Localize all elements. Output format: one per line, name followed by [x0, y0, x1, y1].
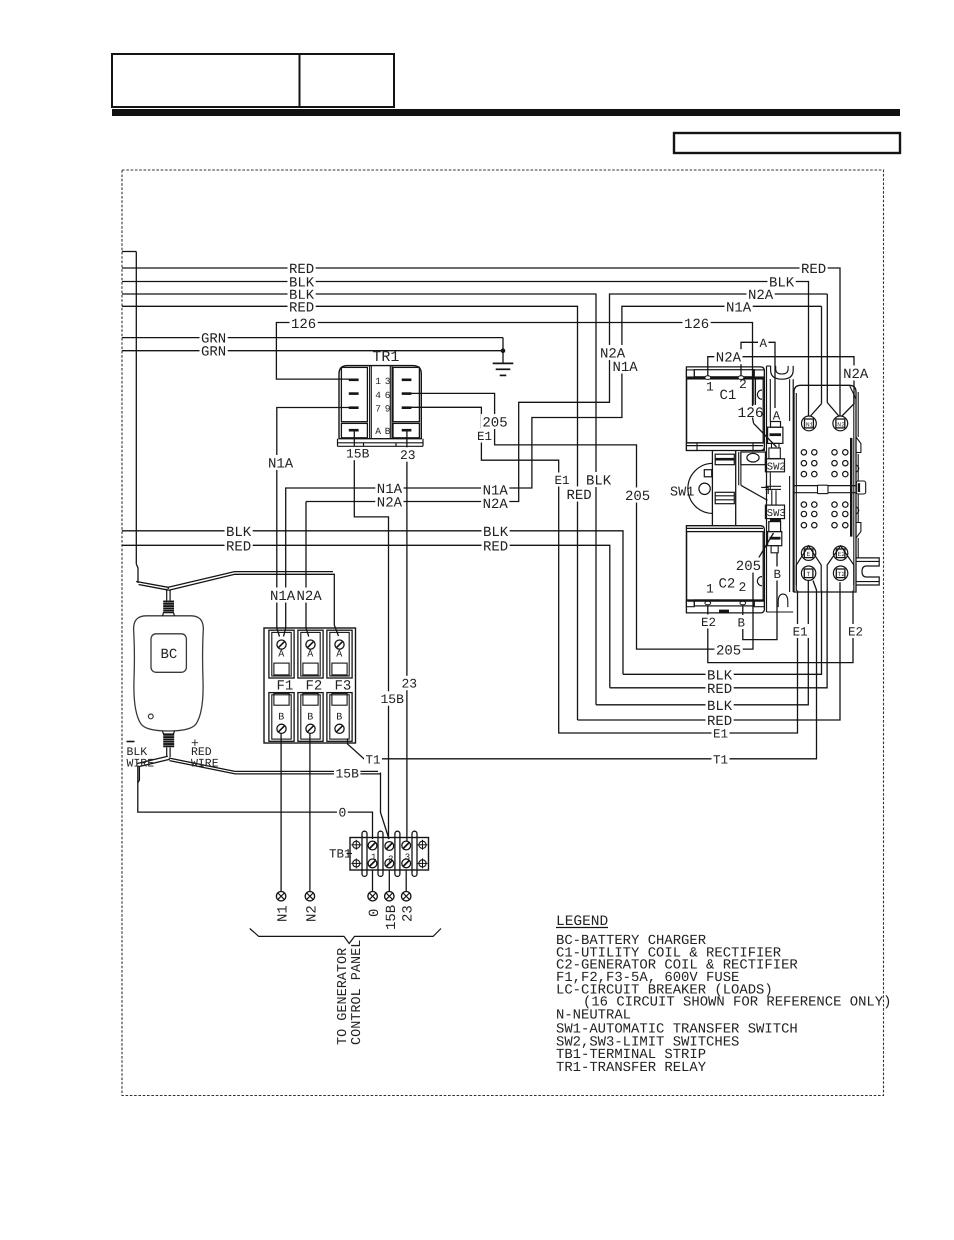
label RED — [706, 680, 734, 695]
label E2 — [847, 624, 865, 638]
svg-text:1: 1 — [375, 376, 381, 387]
wire N1A slant into N1 lug — [821, 306, 823, 403]
wire N1 from fuse F1 — [280, 733, 282, 891]
svg-text:BLK: BLK — [707, 699, 733, 715]
svg-text:N1: N1 — [806, 422, 814, 429]
svg-text:2: 2 — [388, 855, 393, 865]
wire BLK/N2A left segment — [122, 294, 596, 705]
wire N2A fuse F2 riser — [305, 502, 307, 629]
svg-text:126: 126 — [738, 406, 764, 422]
svg-text:126: 126 — [684, 317, 709, 333]
svg-text:C1: C1 — [720, 388, 737, 404]
svg-text:E1: E1 — [555, 474, 570, 488]
svg-text:3: 3 — [385, 376, 391, 387]
label 15B — [379, 691, 405, 705]
wire 15B TR1 pinA run — [354, 430, 388, 839]
svg-text:B: B — [385, 426, 391, 437]
label 15B — [334, 766, 360, 780]
label E1 — [791, 624, 809, 638]
label T1 — [712, 752, 730, 766]
battery charger BC — [134, 616, 204, 731]
label RED — [706, 712, 734, 727]
wire RED mid run — [122, 545, 610, 688]
svg-text:F3: F3 — [335, 679, 352, 695]
svg-text:15B: 15B — [336, 766, 360, 781]
wire N2A to N2 lug right slant — [739, 357, 854, 416]
label RED — [288, 299, 316, 314]
svg-text:A: A — [307, 650, 313, 661]
svg-text:N2A: N2A — [377, 496, 403, 512]
svg-text:RED: RED — [567, 488, 592, 504]
svg-text:3: 3 — [405, 853, 410, 863]
wire N2A mid run — [306, 294, 827, 502]
test point N2 — [305, 892, 314, 901]
svg-text:2: 2 — [739, 377, 747, 392]
svg-text:1: 1 — [371, 853, 376, 863]
wire 15B charger branch — [381, 773, 390, 840]
svg-text:RED: RED — [226, 539, 251, 555]
svg-text:T1: T1 — [366, 753, 381, 767]
svg-text:A: A — [336, 650, 342, 661]
transfer relay TR1 body — [339, 366, 421, 439]
svg-text:F2: F2 — [306, 679, 323, 695]
wire N2A slant into N2 lug — [826, 294, 828, 403]
fuse input curves — [277, 628, 280, 637]
svg-text:F1: F1 — [277, 679, 294, 695]
label N2A — [714, 349, 742, 364]
charger bottom cord split — [137, 756, 168, 763]
limit switch SW3 — [765, 505, 784, 518]
svg-text:TB1: TB1 — [329, 848, 352, 862]
svg-text:205: 205 — [716, 644, 741, 660]
junction GRN wires — [501, 349, 505, 353]
label N1A — [725, 299, 753, 314]
label N2A — [375, 494, 403, 509]
svg-text:N1A: N1A — [270, 589, 296, 605]
label E1 — [712, 726, 730, 740]
svg-text:B: B — [307, 713, 313, 724]
svg-text:E1: E1 — [793, 626, 808, 640]
svg-text:A: A — [760, 337, 768, 351]
wire BLK lower run to breaker T1 lug — [596, 581, 808, 705]
svg-text:SW1: SW1 — [670, 486, 694, 501]
label N2A — [747, 286, 775, 301]
wire TB1-3 to test point 23 — [405, 870, 407, 891]
svg-text:SW3: SW3 — [767, 508, 786, 520]
svg-text:7: 7 — [375, 404, 381, 415]
wire E2 from C2 terminal 1 — [708, 591, 853, 663]
wire RED lower run to breaker T2 lug — [578, 582, 841, 720]
svg-text:E1: E1 — [477, 430, 492, 444]
wire TB1-2 to test point 15B — [388, 870, 390, 891]
svg-text:E2: E2 — [848, 626, 863, 640]
wire GRN upper — [122, 337, 503, 339]
wire 0 from charger to TB1-1 — [138, 766, 373, 840]
label N2A — [599, 345, 627, 360]
svg-text:WIRE: WIRE — [191, 758, 219, 771]
svg-text:GRN: GRN — [201, 345, 226, 361]
terminal strip TB1 — [350, 838, 429, 871]
svg-text:2: 2 — [739, 580, 747, 595]
label BLK — [482, 523, 510, 538]
brace to generator control panel — [250, 929, 441, 944]
wire E1 TR1 pin9 run — [411, 407, 798, 733]
label GRN — [200, 330, 228, 345]
svg-text:SW2: SW2 — [767, 461, 786, 473]
title block box left — [112, 54, 300, 107]
svg-text:TR1-TRANSFER RELAY: TR1-TRANSFER RELAY — [556, 1060, 707, 1076]
load center circuit breaker LC — [794, 385, 856, 592]
svg-text:N2A: N2A — [483, 497, 509, 513]
label 126 — [683, 315, 711, 330]
label N1A — [481, 482, 509, 497]
label B — [772, 567, 783, 581]
svg-text:A: A — [278, 650, 284, 661]
svg-text:23: 23 — [402, 677, 418, 692]
label N1A — [375, 480, 403, 495]
svg-text:B: B — [774, 568, 782, 582]
wire TB1-1 to test point 0 — [372, 870, 374, 891]
svg-text:23: 23 — [401, 905, 417, 922]
wire BLK bottom run to E/T housing — [623, 591, 822, 675]
svg-text:A: A — [375, 426, 381, 437]
svg-text:E1: E1 — [713, 728, 728, 742]
utility coil & rectifier C1 — [686, 367, 764, 451]
svg-text:N2A: N2A — [716, 351, 742, 367]
svg-text:E2: E2 — [838, 551, 846, 558]
wire T1 from fuse F3 to breaker T lug — [348, 581, 817, 759]
limit switch SW2 — [771, 422, 781, 428]
title block box right — [300, 54, 395, 107]
svg-text:1: 1 — [706, 380, 714, 395]
wire 126 from TR1 pin1 — [276, 323, 752, 407]
svg-text:1: 1 — [706, 582, 714, 597]
svg-text:E2: E2 — [701, 616, 716, 630]
wire A from C1 terminal 2 to SW2 — [741, 342, 775, 421]
generator coil & rectifier C2 — [686, 526, 764, 613]
svg-text:9: 9 — [385, 404, 391, 415]
svg-text:N2: N2 — [305, 905, 321, 922]
test point 0 — [368, 892, 377, 901]
wire GRN lower — [122, 350, 503, 352]
wire N2 from fuse F2 — [309, 733, 311, 891]
automatic transfer switch SW1 mechanism — [711, 451, 713, 526]
header rule — [112, 109, 900, 116]
svg-text:T2: T2 — [838, 571, 846, 578]
svg-text:0: 0 — [339, 805, 347, 820]
label 205 — [624, 487, 652, 502]
wire 126 slant into SW2 — [753, 418, 754, 424]
svg-text:TO GENERATOR: TO GENERATOR — [336, 948, 351, 1045]
svg-text:B: B — [336, 713, 342, 724]
charger feed drop — [122, 251, 136, 253]
label 23 — [400, 676, 419, 690]
svg-text:126: 126 — [291, 317, 316, 333]
svg-text:205: 205 — [625, 489, 650, 505]
test point 23 — [402, 892, 411, 901]
label RED — [565, 486, 593, 501]
wire N2A C1 terminal 1 stub — [708, 357, 716, 377]
wire N1A fuse F1 riser B from TR1 pin7 — [277, 408, 349, 629]
svg-text:15B: 15B — [346, 447, 370, 462]
svg-text:N1A: N1A — [726, 300, 752, 316]
svg-text:TR1: TR1 — [372, 349, 399, 366]
charger top cord split — [136, 582, 168, 590]
label 205 — [734, 557, 762, 572]
label N1A — [267, 455, 295, 470]
wire RED bottom run to E2/T2 housing — [610, 591, 827, 688]
svg-text:C2: C2 — [719, 577, 736, 593]
svg-text:23: 23 — [400, 448, 416, 463]
svg-text:RED: RED — [801, 262, 826, 278]
label A — [758, 335, 769, 349]
wire RED/N1A left segment — [122, 306, 578, 720]
svg-text:N2A: N2A — [843, 367, 869, 383]
svg-text:4: 4 — [375, 390, 381, 401]
svg-text:RED: RED — [289, 300, 314, 316]
label N2A — [295, 587, 323, 602]
label N1A — [611, 358, 639, 373]
svg-text:CONTROL PANEL: CONTROL PANEL — [350, 940, 365, 1045]
label B — [736, 615, 747, 629]
svg-text:15B: 15B — [384, 905, 400, 930]
part-number box — [674, 133, 900, 153]
wire RED utility to N2 — [122, 268, 840, 416]
test point 15B — [385, 892, 394, 901]
svg-text:E: E — [807, 551, 811, 558]
label E1 — [553, 473, 571, 487]
svg-text:N1A: N1A — [268, 457, 294, 473]
label RED — [225, 538, 253, 553]
svg-text:15B: 15B — [381, 692, 405, 707]
svg-text:WIRE: WIRE — [127, 758, 155, 771]
label 126 — [290, 315, 318, 330]
label T1 — [364, 752, 382, 766]
label N2A — [842, 365, 870, 380]
label BLK — [706, 667, 734, 682]
wire BLK utility to N1 — [122, 282, 809, 416]
label E1 — [476, 429, 494, 443]
wire GRN drop to ground — [502, 338, 504, 363]
diagram dashed border — [122, 170, 884, 1096]
wire BLK mid run — [122, 531, 623, 675]
label BLK — [288, 274, 316, 289]
label E2 — [700, 615, 718, 629]
label BLK — [225, 523, 253, 538]
label BLK — [768, 274, 796, 289]
label 205 — [481, 414, 509, 429]
label N1A — [269, 587, 297, 602]
label BLK — [288, 286, 316, 301]
fuse block F1 F2 F3 — [264, 628, 356, 743]
svg-text:RED: RED — [483, 539, 508, 555]
label 15B — [345, 446, 371, 460]
svg-text:6: 6 — [385, 390, 391, 401]
svg-text:B: B — [278, 713, 284, 724]
label BLK — [706, 697, 734, 712]
svg-text:T1: T1 — [713, 753, 728, 767]
wire 205 TR1 pin4 to SW3 — [411, 393, 753, 649]
label N2A — [481, 495, 509, 510]
wire B from C2 terminal 2 to SW3 — [743, 553, 777, 640]
svg-text:205: 205 — [736, 559, 761, 575]
svg-text:T: T — [807, 571, 811, 578]
label 205 — [715, 642, 743, 657]
wire 205 slant into SW3 contact — [754, 533, 774, 566]
label RED — [482, 538, 510, 553]
svg-text:BC: BC — [161, 647, 178, 663]
svg-text:N1: N1 — [276, 905, 292, 922]
mounting bracket — [766, 366, 768, 612]
svg-text:N2A: N2A — [297, 589, 323, 605]
ground symbol — [493, 362, 514, 364]
label A — [771, 408, 782, 422]
svg-text:RED: RED — [707, 682, 732, 698]
label BLK — [585, 472, 613, 487]
label RED — [288, 260, 316, 275]
label GRN — [200, 343, 228, 358]
wire N1A fuse F1 riser A — [286, 306, 822, 628]
test point N1 — [276, 892, 285, 901]
svg-text:B: B — [738, 617, 746, 631]
label 23 — [399, 447, 418, 461]
label RED — [800, 260, 828, 275]
svg-text:N1A: N1A — [613, 360, 639, 376]
svg-text:0: 0 — [367, 909, 383, 917]
wire 23 TR1 pinB run — [406, 430, 408, 841]
BC minus lead label — [127, 741, 135, 743]
svg-text:N2: N2 — [837, 422, 845, 429]
label 0 — [337, 804, 348, 818]
